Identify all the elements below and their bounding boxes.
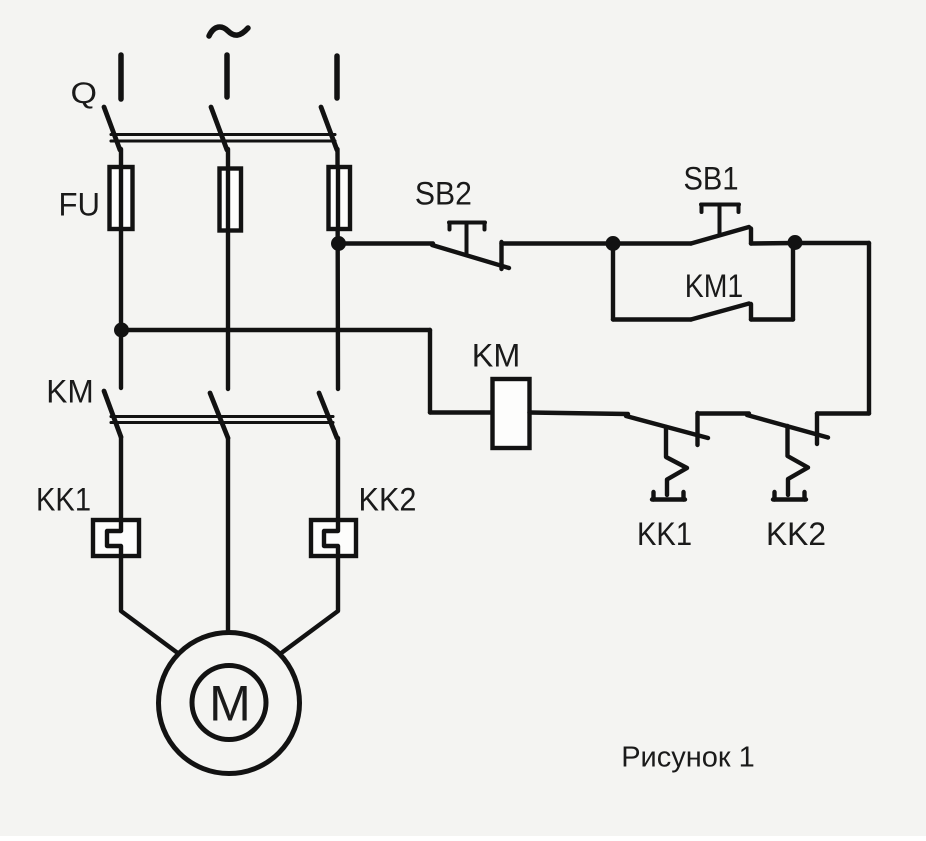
pushbutton SB1 right terminal: [749, 229, 753, 244]
svg-text:SB1: SB1: [684, 161, 739, 197]
contact KM1 left branch wire: [611, 244, 615, 320]
wire phase1 to motor: [121, 556, 179, 654]
wire node3 to right rail: [795, 241, 869, 245]
thermal contact KK2 right terminal: [815, 414, 819, 445]
coil KM: [493, 379, 530, 448]
supply stub L3: [334, 56, 340, 98]
pushbutton SB2 right terminal: [499, 242, 503, 269]
pushbutton SB2 blade: [432, 245, 509, 268]
contactor KM linkage bar: [111, 417, 333, 423]
fuse FU1: [110, 167, 133, 229]
supply stub L2: [224, 55, 230, 97]
wire phase3 to motor: [280, 556, 338, 654]
svg-text:FU: FU: [59, 187, 101, 223]
wire node2 to SB1: [613, 241, 691, 245]
switch Q blade pole3: [321, 107, 337, 150]
svg-text:Рисунок 1: Рисунок 1: [621, 742, 755, 774]
wire SB1 to node3: [751, 241, 795, 246]
svg-text:KM1: KM1: [685, 268, 744, 304]
pushbutton SB2 actuator: [449, 223, 485, 255]
wire phase3 lower: [336, 438, 340, 531]
switch Q blade pole2: [211, 107, 227, 150]
wire right rail vertical: [867, 243, 871, 414]
wire KK2 to right rail: [817, 411, 869, 415]
wire phase1 vertical: [119, 149, 123, 388]
wire phase2 vertical: [226, 149, 230, 389]
motor M outer circle: [159, 633, 300, 774]
svg-text:KK2: KK2: [766, 516, 826, 552]
AC supply tilde: [209, 27, 248, 36]
node junction SB1/KM1: [788, 235, 803, 250]
svg-text:Q: Q: [71, 77, 98, 110]
pushbutton SB1 actuator: [701, 205, 739, 235]
wire phase2 lower: [226, 438, 230, 633]
thermal contact KK2 blade: [747, 415, 828, 438]
wire node to SB2: [339, 241, 434, 245]
contactor KM blade pole1: [104, 391, 121, 437]
switch Q linkage bar: [111, 135, 335, 142]
svg-text:SB2: SB2: [415, 176, 472, 212]
fuse FU3: [329, 167, 351, 229]
wire coil to KK1 contact: [530, 413, 629, 415]
wire KK1 to KK2 contact: [698, 411, 750, 415]
thermal contact KK2 element: [788, 426, 809, 495]
svg-text:M: M: [209, 676, 251, 732]
heater KK2: [311, 520, 356, 556]
wire control run to coil: [122, 328, 431, 332]
thermal contact KK1 element: [666, 427, 687, 495]
contactor KM blade pole2: [210, 393, 228, 438]
svg-text:KK1: KK1: [637, 516, 692, 552]
svg-text:KK2: KK2: [359, 482, 417, 518]
svg-text:KM: KM: [472, 338, 521, 374]
node junction SB2/KM1: [606, 236, 621, 251]
thermal contact KK1 right terminal: [695, 413, 699, 445]
fuse FU2: [220, 169, 242, 231]
supply stub L1: [118, 55, 124, 99]
node phase1 / control tap: [114, 323, 129, 338]
wire phase3 vertical: [335, 149, 340, 389]
svg-text:KK1: KK1: [36, 482, 91, 518]
svg-text:KM: KM: [46, 374, 94, 410]
wire SB2 to node2: [502, 241, 614, 245]
contactor KM blade pole3: [319, 393, 337, 438]
wire phase1 lower: [119, 437, 123, 531]
contact KM1 blade: [691, 304, 749, 320]
switch Q blade pole1: [104, 107, 120, 150]
node phase3 / control tap: [331, 236, 346, 251]
contact KM1 right branch wire: [751, 317, 793, 321]
thermal contact KK1 blade: [626, 416, 708, 438]
contact KM1 right terminal: [749, 304, 753, 320]
heater KK1: [93, 520, 139, 556]
motor M inner circle: [192, 666, 266, 740]
pushbutton SB1 blade: [691, 227, 749, 244]
